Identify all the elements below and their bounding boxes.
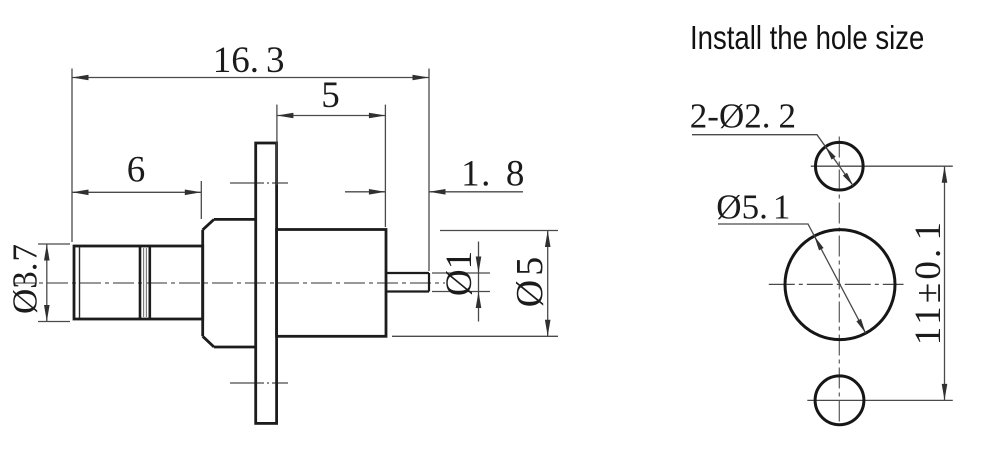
svg-text:11±0.1: 11±0.1 xyxy=(908,219,949,345)
svg-text:6: 6 xyxy=(127,150,146,191)
svg-text:Ø3.7: Ø3.7 xyxy=(6,244,45,314)
svg-text:Ø5: Ø5 xyxy=(509,257,551,307)
svg-text:Ø1: Ø1 xyxy=(439,251,480,296)
svg-text:1.8: 1.8 xyxy=(461,154,526,195)
svg-text:16.3: 16.3 xyxy=(213,40,285,81)
svg-text:5: 5 xyxy=(321,75,340,116)
svg-text:2-Ø2.2: 2-Ø2.2 xyxy=(690,97,796,136)
svg-text:Ø5.1: Ø5.1 xyxy=(716,188,790,227)
